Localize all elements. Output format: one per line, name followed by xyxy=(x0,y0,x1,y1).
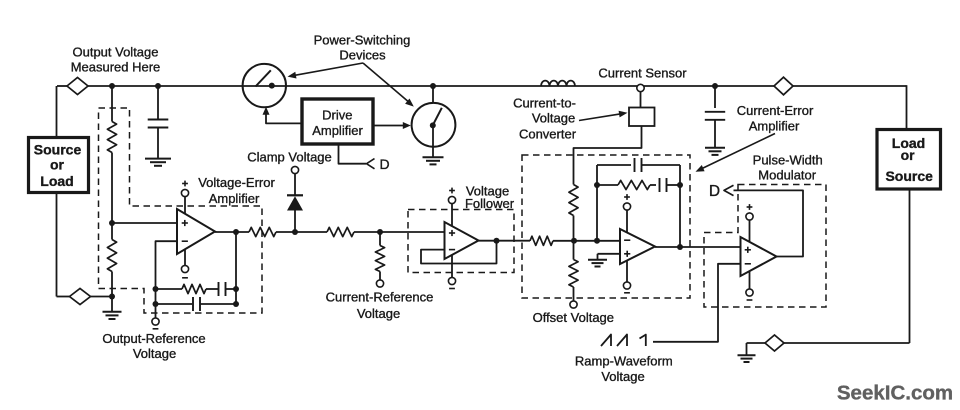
box Source or Load xyxy=(29,138,89,193)
arrowhead open D pwm xyxy=(724,185,734,195)
terminal VE supply + xyxy=(181,189,188,196)
wire drive bottom D xyxy=(339,144,367,164)
ground under C1 xyxy=(145,158,171,160)
resistor R1 xyxy=(107,122,116,153)
U3 minus input mark xyxy=(624,239,630,241)
U4 bottom stub xyxy=(749,272,751,290)
wire fb cap to right node xyxy=(226,288,237,290)
op-amp U2 voltage follower xyxy=(445,222,479,259)
capacitor C-fb series xyxy=(218,282,220,296)
wire fb lower left xyxy=(156,303,193,305)
node clamp diode junction xyxy=(292,229,298,235)
terminal PWM bottom xyxy=(746,289,753,296)
wire R1 to node xyxy=(111,153,113,224)
resistor R3 xyxy=(249,227,276,236)
box current-to-voltage converter xyxy=(629,108,655,127)
wire R3 to diode node xyxy=(276,231,327,233)
svg-text:Clamp Voltage: Clamp Voltage xyxy=(247,150,332,165)
mark minus below VE terminal xyxy=(182,277,188,279)
wire bus to Q2 xyxy=(432,86,434,103)
wire feedback right riser xyxy=(235,232,237,304)
diode D1 triangle xyxy=(287,196,303,210)
svg-text:Current-Reference: Current-Reference xyxy=(326,290,434,305)
wire diode to signal xyxy=(294,210,296,232)
switch circle Q2 xyxy=(412,103,456,147)
terminal VE bottom xyxy=(181,265,188,272)
wire Q2 to ground xyxy=(432,125,434,157)
switch circle Q1 xyxy=(243,64,286,107)
wire node to R2 xyxy=(111,223,113,240)
diode D1 cathode bar xyxy=(287,194,303,196)
Q2 lever xyxy=(433,108,442,125)
pointer line to Q2 xyxy=(363,63,411,104)
wire main bus left segment xyxy=(57,85,67,87)
node lower junction xyxy=(109,294,115,300)
node CE fb tap xyxy=(594,238,600,244)
svg-text:Power-Switching: Power-Switching xyxy=(314,33,411,48)
svg-text:Modulator: Modulator xyxy=(758,168,816,183)
resistor R8 offset xyxy=(569,260,578,288)
terminal current-reference voltage xyxy=(376,280,383,287)
node bus above Q2 xyxy=(430,83,436,89)
label + above VF terminal xyxy=(449,190,455,192)
wire CE fb mid left xyxy=(597,184,618,186)
wire drive right xyxy=(373,125,404,127)
svg-text:Offset Voltage: Offset Voltage xyxy=(533,310,614,325)
resistor R2 xyxy=(107,240,116,272)
dashed box voltage follower xyxy=(408,210,514,273)
wire R4 to VF xyxy=(354,231,445,233)
wire to lower diamond xyxy=(57,296,70,298)
wire drive left xyxy=(266,110,302,123)
svg-text:Source: Source xyxy=(34,141,82,157)
arrowhead at converter box xyxy=(619,111,628,118)
pointer line to Q1 xyxy=(292,63,363,76)
wire tap to converter box xyxy=(640,92,642,108)
diamond lower measurement point xyxy=(70,289,91,305)
wire fb upper left xyxy=(156,288,183,290)
svg-text:Source: Source xyxy=(885,168,933,184)
wire CE fb mid right xyxy=(667,184,681,186)
wire riser to Load box xyxy=(906,85,908,129)
wire U4 output loop xyxy=(734,190,804,256)
svg-text:Current-to-: Current-to- xyxy=(513,96,576,111)
mark below VF terminal xyxy=(449,288,455,290)
arrowhead up at Q1 xyxy=(263,107,270,115)
wire C5 to ground xyxy=(714,120,716,148)
wire R6 to CE input xyxy=(553,240,620,242)
wire CE fb top down xyxy=(679,165,681,185)
svg-text:Current-Error: Current-Error xyxy=(737,103,814,118)
label + above PWM terminal xyxy=(747,206,753,208)
wire R2 to lower node xyxy=(111,272,113,297)
node CE fb mid-right xyxy=(677,182,683,188)
arrowhead at Q2 xyxy=(405,99,414,107)
wire R8 to terminal xyxy=(573,287,575,301)
pointer line to CE box xyxy=(700,134,775,170)
wire R5 to terminal xyxy=(379,272,381,281)
resistor R-fb xyxy=(182,284,206,293)
terminal VF bottom xyxy=(448,277,455,284)
dashed box voltage-error amplifier xyxy=(99,108,263,313)
wire CE fb top right xyxy=(642,164,681,166)
node on bus x=715 xyxy=(712,83,718,89)
wire node to R5 xyxy=(379,232,381,246)
wire U4 minus lead xyxy=(653,264,741,342)
diamond output-voltage measurement point xyxy=(67,78,88,95)
wire U3 output xyxy=(655,246,741,248)
ground under R2 xyxy=(103,311,122,313)
wire U1 minus input lead xyxy=(156,241,178,304)
box Load or Source xyxy=(877,130,941,190)
node feedback upper-left xyxy=(153,286,159,292)
wire Source box riser xyxy=(56,86,58,137)
op-amp U3 current-error amplifier xyxy=(620,229,655,264)
diamond current-error measurement point xyxy=(774,77,793,95)
wire bus down to R1 xyxy=(111,86,113,122)
wire bus to C1 xyxy=(157,86,159,120)
U1 bottom stub xyxy=(184,250,186,266)
capacitor C5 xyxy=(705,111,725,113)
terminal CE bottom xyxy=(623,282,630,289)
U2 plus input mark xyxy=(449,232,455,234)
svg-text:Output Voltage: Output Voltage xyxy=(72,45,158,60)
arrowhead open D drive xyxy=(367,159,375,169)
node CE input xyxy=(571,238,577,244)
op-amp U4 pulse-width modulator xyxy=(741,237,777,276)
wire bottom return xyxy=(784,342,910,344)
wire U2 output xyxy=(479,240,531,242)
terminal output-reference voltage xyxy=(152,318,159,325)
mark below OR terminal xyxy=(153,328,159,330)
box drive amplifier xyxy=(302,99,373,144)
capacitor C1 xyxy=(148,119,169,121)
wire fb lower right xyxy=(200,303,236,305)
svg-text:Voltage: Voltage xyxy=(133,346,176,361)
U3 top stub xyxy=(626,210,628,233)
svg-text:or: or xyxy=(901,147,916,163)
svg-text:Output-Reference: Output-Reference xyxy=(102,331,205,346)
U4 plus input mark xyxy=(745,249,751,251)
wire diamond to ground xyxy=(747,342,766,344)
wire main bus from diamond to right diamond xyxy=(88,85,774,87)
dashed box current-error amplifier xyxy=(522,155,690,298)
wire CE fb riser xyxy=(596,165,598,241)
U4 minus input mark xyxy=(745,263,751,265)
wire R7 to input node xyxy=(573,216,575,241)
node U1 output xyxy=(233,229,239,235)
svg-text:Voltage: Voltage xyxy=(532,111,575,126)
U3 bottom stub xyxy=(626,261,628,283)
node fb lower-left xyxy=(153,301,159,307)
wire U1 output xyxy=(215,231,249,233)
wire output-reference stub xyxy=(155,304,157,318)
Q1 contact dot xyxy=(269,83,275,89)
terminal offset voltage xyxy=(570,301,577,308)
wire Source box bottom lead xyxy=(56,192,58,297)
mark below PWM terminal xyxy=(747,299,753,301)
U1 minus input mark xyxy=(182,240,188,242)
resistor R-ce fb xyxy=(618,180,650,189)
svg-text:or: or xyxy=(50,157,65,173)
Q1 lever xyxy=(256,70,271,86)
dashed box pulse-width modulator xyxy=(704,185,826,308)
wire to ground xyxy=(111,297,113,312)
wire ground stub br xyxy=(746,343,748,355)
svg-text:Amplifier: Amplifier xyxy=(312,123,363,138)
label + above VE terminal xyxy=(182,183,188,185)
U2 minus input mark xyxy=(449,249,455,251)
node on bus x=112 xyxy=(109,83,115,89)
node feedback lower-right xyxy=(233,301,239,307)
resistor R6 xyxy=(530,236,553,245)
resistor R4 xyxy=(327,227,354,236)
wire CE fb top left xyxy=(597,164,631,166)
node U3 output fb junction xyxy=(677,244,683,250)
wire U2 feedback loop xyxy=(421,241,497,264)
wire Load box bottom lead xyxy=(909,189,911,343)
node VE+ input junction xyxy=(109,220,115,226)
svg-text:Voltage: Voltage xyxy=(357,306,400,321)
ground at U3 plus xyxy=(588,259,607,261)
U4 top stub xyxy=(749,220,751,242)
U2 bottom stub xyxy=(451,255,453,278)
wire converter to offset network xyxy=(574,126,642,185)
diamond bottom-right measurement xyxy=(765,335,784,351)
wire C1 to ground xyxy=(157,128,159,159)
wire main bus right segment xyxy=(793,85,907,87)
ramp waveform symbol xyxy=(601,335,611,347)
terminal clamp voltage xyxy=(291,166,298,173)
ground under C5 xyxy=(705,147,725,149)
node feedback upper-right xyxy=(233,286,239,292)
svg-text:Amplifier: Amplifier xyxy=(749,119,800,134)
svg-text:Follower: Follower xyxy=(465,196,515,211)
terminal CE supply + xyxy=(623,203,630,210)
svg-text:D: D xyxy=(379,156,389,172)
ground under Q2 xyxy=(423,156,444,158)
wire clamp terminal to diode xyxy=(294,174,296,196)
svg-text:Voltage: Voltage xyxy=(601,369,644,384)
svg-text:Converter: Converter xyxy=(519,127,577,142)
resistor R7 xyxy=(569,185,578,216)
svg-text:Amplifier: Amplifier xyxy=(209,191,260,206)
ground bottom-right xyxy=(738,354,756,356)
wire diamond to node xyxy=(91,296,113,298)
capacitor C-ce mid xyxy=(659,178,661,192)
arrowhead right at Q2 xyxy=(403,122,411,129)
node on bus x=158 xyxy=(155,83,161,89)
wire fb to cap xyxy=(206,288,219,290)
wire CE fb right riser xyxy=(679,185,681,247)
terminal VF supply + xyxy=(448,196,455,203)
capacitor C-fb2 xyxy=(192,297,194,311)
terminal PWM supply + xyxy=(746,213,753,220)
svg-text:Voltage-Error: Voltage-Error xyxy=(198,175,275,190)
inductor current sensor xyxy=(541,81,575,86)
svg-text:SeekIC.com: SeekIC.com xyxy=(837,382,953,405)
pointer line to converter box xyxy=(579,114,621,121)
U3 plus input mark xyxy=(624,253,630,255)
svg-text:Current Sensor: Current Sensor xyxy=(598,66,687,81)
label + above CE terminal xyxy=(624,196,630,198)
U1 top supply stub xyxy=(184,197,186,214)
wire bus to C5 xyxy=(714,86,716,108)
capacitor C-ce top xyxy=(634,158,636,172)
svg-text:Ramp-Waveform: Ramp-Waveform xyxy=(575,354,673,369)
svg-text:Measured Here: Measured Here xyxy=(71,60,161,75)
U1 plus input mark xyxy=(182,222,188,224)
node U2 output xyxy=(494,238,500,244)
node CE fb mid-left xyxy=(594,182,600,188)
wire U3 plus ground stub xyxy=(597,254,599,260)
mark below CE terminal xyxy=(624,292,630,294)
svg-text:Load: Load xyxy=(40,173,73,189)
U2 top stub xyxy=(451,204,453,227)
resistor R5 current-reference xyxy=(375,246,384,272)
wire VE+ input xyxy=(112,222,177,224)
Q2 contact dot xyxy=(430,122,436,128)
svg-text:Devices: Devices xyxy=(339,48,386,63)
svg-text:D: D xyxy=(709,183,720,200)
terminal current sensor tap xyxy=(637,84,644,91)
svg-text:Drive: Drive xyxy=(322,108,352,123)
arrowhead at Q1 xyxy=(288,72,297,79)
node current-reference junction xyxy=(377,229,383,235)
svg-text:Pulse-Width: Pulse-Width xyxy=(753,153,823,168)
wire CE fb mid xyxy=(650,184,656,186)
wire U3 plus lead xyxy=(598,253,621,255)
arrowhead at CE box xyxy=(696,165,705,172)
wire node to R8 xyxy=(573,241,575,260)
op-amp U1 voltage-error amplifier xyxy=(177,209,215,254)
